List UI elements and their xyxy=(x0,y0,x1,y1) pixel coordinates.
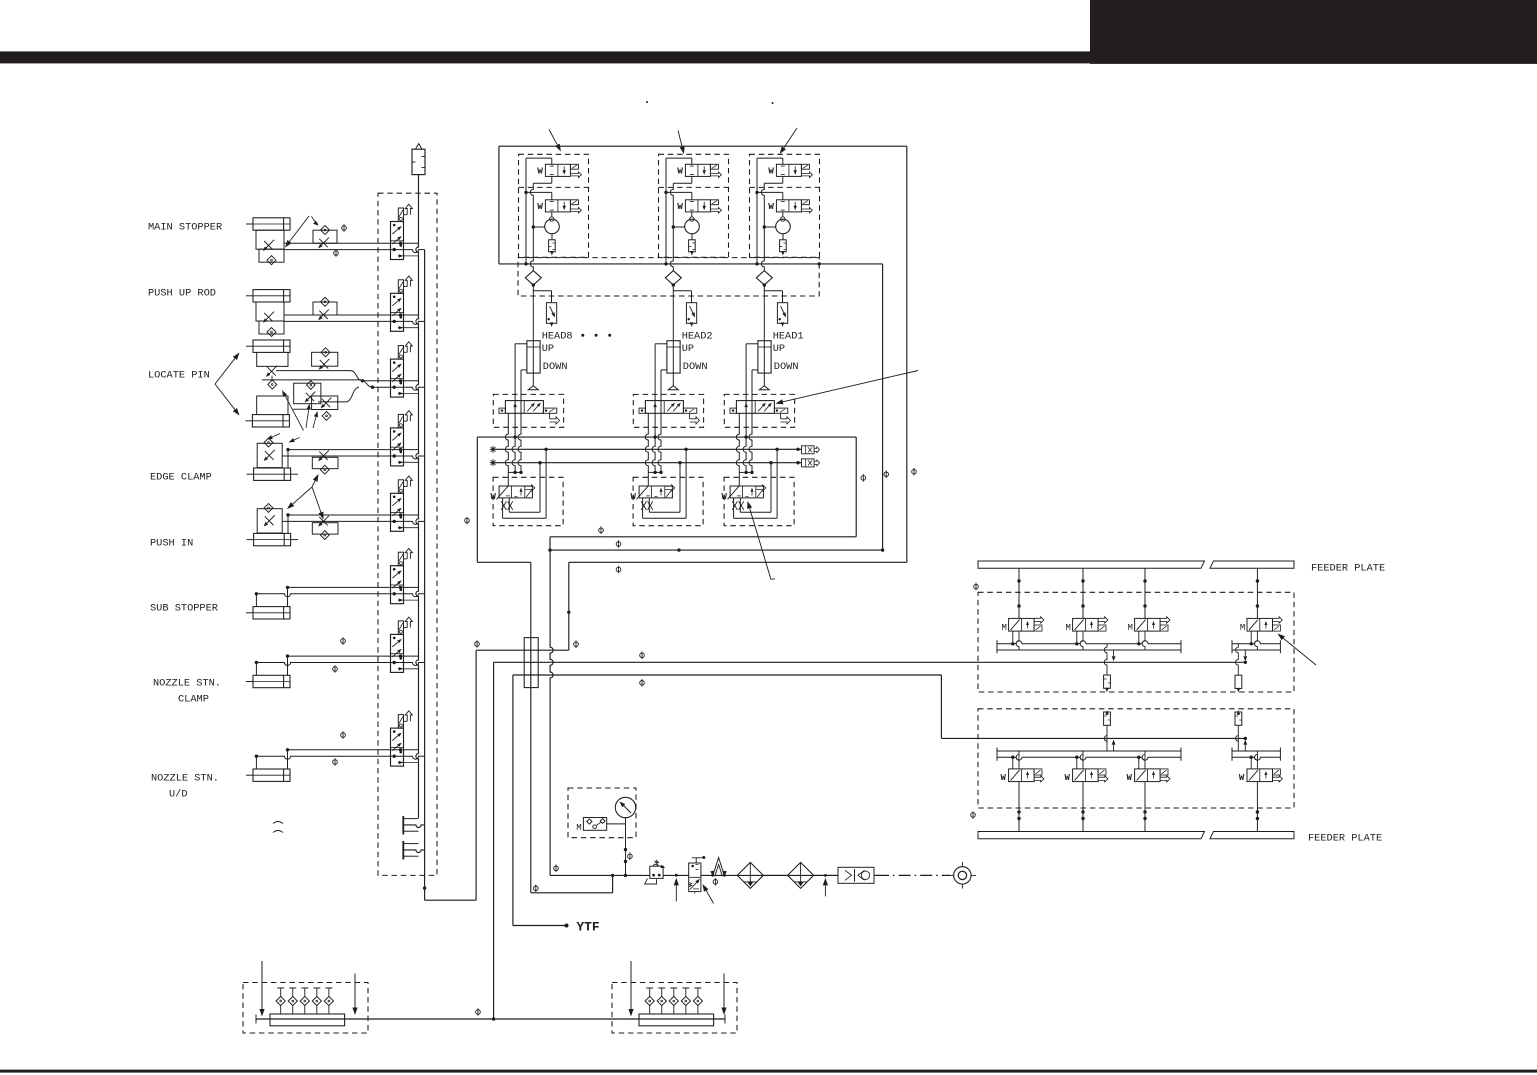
wire lower box bottom xyxy=(550,536,856,538)
wire lower box left xyxy=(476,437,478,562)
manifold valve MV3 xyxy=(391,359,404,397)
dashed box HEAD1 valves xyxy=(750,154,820,257)
wire gauge drop xyxy=(625,818,627,876)
wire YTF xyxy=(513,925,567,927)
check valve valve manifold L 2 xyxy=(289,987,296,989)
wire feeder upper manifold line1 xyxy=(997,641,1181,644)
dashed box HEAD1 cylinder valve xyxy=(724,394,794,427)
manifold valve MV5 xyxy=(391,493,404,531)
ellipsis dots xyxy=(581,334,584,337)
speed controller PUSH IN a xyxy=(257,509,282,533)
phi mark xyxy=(640,652,645,660)
feeder bar lower b xyxy=(1210,832,1294,839)
phi mark xyxy=(341,731,346,739)
wire EDGE CLAMP junction xyxy=(287,450,289,468)
wire feeder valve U2 outputs xyxy=(1076,631,1078,644)
speed controller PUSH UP ROD a xyxy=(256,302,284,321)
phi mark xyxy=(616,566,621,574)
svg-text:W: W xyxy=(1239,773,1245,783)
speed controller LOCATE PIN b xyxy=(312,352,338,366)
wire HEAD2 valveB out xyxy=(691,212,693,217)
wire HEAD2 main drop xyxy=(672,285,674,386)
manifold valve MV6 xyxy=(391,566,404,604)
wire feed right branch xyxy=(882,264,884,550)
start valve exhaust T xyxy=(695,858,697,863)
wire LOCATE PIN valve lines xyxy=(363,380,419,382)
break marks xyxy=(273,822,283,824)
check valve valve manifold L 3 xyxy=(301,987,308,989)
wire PUSH UP ROD lower xyxy=(284,321,425,324)
wire HEAD1 valveB supply xyxy=(757,191,783,193)
svg-text:W: W xyxy=(677,166,683,177)
wire HEAD2 junction bar xyxy=(648,471,661,473)
manifold exhaust port block 1 xyxy=(402,816,404,835)
svg-text:W: W xyxy=(1065,773,1071,783)
housing LOCATE PIN lower xyxy=(257,396,288,415)
svg-text:UP: UP xyxy=(542,343,554,355)
annotation arrow edge clamp b xyxy=(272,434,280,438)
wire PUSH IN junction xyxy=(287,515,289,533)
wire feeder valve L4 inputs xyxy=(1250,757,1252,769)
wire HEAD8 venturi branch xyxy=(533,226,544,228)
wire HEAD8 wrapB xyxy=(539,463,541,513)
svg-text:SUB STOPPER: SUB STOPPER xyxy=(150,603,218,615)
exhaust HEAD1 cylinder valve xyxy=(780,413,782,419)
speed controller PUSH IN b xyxy=(312,523,338,534)
exhaust HEAD8 cylinder valve xyxy=(549,413,551,419)
valve feeder valve U4 xyxy=(1247,618,1273,631)
svg-text:M: M xyxy=(1240,623,1245,633)
dashed box feeder upper xyxy=(978,592,1294,692)
wire feeder U4 manifold xyxy=(1232,641,1280,644)
phi mark xyxy=(476,1008,481,1016)
wire HEAD8 DOWN line xyxy=(521,369,527,371)
svg-text:W: W xyxy=(537,201,543,212)
wire line A550 xyxy=(550,549,883,551)
wire feeder valve U4 outputs xyxy=(1250,631,1252,644)
dashed box HEAD2 hand valve xyxy=(633,477,703,525)
wire feeder L4 manifold xyxy=(1232,750,1280,752)
exhaust port MV4 xyxy=(404,420,408,422)
svg-text:HEAD2: HEAD2 xyxy=(682,330,713,342)
manifold exhaust port block 2 xyxy=(402,841,404,860)
svg-text:W: W xyxy=(768,201,774,212)
filter feeder U main xyxy=(1104,644,1107,675)
silencer F1 on manifold supply xyxy=(412,149,425,174)
wire PUSH UP ROD upper xyxy=(284,314,419,316)
exhaust port MV5 xyxy=(404,486,408,488)
cylinder LOCATE PIN upper xyxy=(253,340,290,352)
arrow valve manifold R out xyxy=(723,974,725,1008)
dashed box HEAD2 valves xyxy=(659,154,729,257)
wire HEAD1 wrapA xyxy=(776,449,778,518)
plug bus A xyxy=(802,446,815,454)
check valve valve manifold R 1 xyxy=(646,987,653,989)
wire stem feeder valve L3 xyxy=(1144,782,1146,832)
svg-text:DOWN: DOWN xyxy=(543,361,568,373)
wire HEAD2 venturi branch xyxy=(673,226,684,228)
wire HEAD1 junction bar xyxy=(739,471,752,473)
wire NOZZLE STN. U/D lower xyxy=(256,756,424,759)
supply arrow L4 xyxy=(1244,744,1246,751)
svg-text:LOCATE PIN: LOCATE PIN xyxy=(148,370,210,382)
check valve valve manifold R 3 xyxy=(670,987,677,989)
wire run 900 xyxy=(425,899,477,901)
supply arrow L main xyxy=(1113,744,1115,751)
exhaust cone xyxy=(713,858,725,877)
manifold bar valve manifold L xyxy=(270,1014,345,1026)
wire lower box right xyxy=(855,437,857,537)
shuttle valve HEAD2 xyxy=(665,271,681,285)
wire HEAD8 valveB out xyxy=(551,212,553,217)
filter feeder L4 xyxy=(1236,725,1239,751)
wire NOZZLE STN. U/D stub right xyxy=(287,750,289,769)
arrow valve manifold L out xyxy=(354,974,356,1008)
valve HEAD8 hand valve xyxy=(499,486,532,498)
wire PUSH IN upper xyxy=(288,514,419,516)
housing LOCATE PIN upper xyxy=(257,352,288,366)
dashed box HEAD2 cylinder valve xyxy=(633,394,703,427)
annotation arrow fan2 xyxy=(312,487,321,512)
annotation arrow feeder xyxy=(1283,638,1316,665)
pressure gauge xyxy=(615,797,635,817)
wire stem feeder valve L1 xyxy=(1018,782,1020,832)
cylinder HEAD1 xyxy=(758,341,771,373)
wire right riser 881 xyxy=(882,549,884,551)
exhaust port MV2 xyxy=(404,286,408,288)
check valve MAIN STOPPER xyxy=(259,249,284,262)
wire drop 550 to airline xyxy=(550,550,553,875)
annotation arrow HEAD1 xyxy=(784,128,797,148)
cylinder HEAD8 xyxy=(527,341,540,373)
valve HEAD1 cylinder valve xyxy=(736,401,774,414)
wire HEAD8 supply vertical xyxy=(525,158,527,264)
cylinder NOZZLE STN. CLAMP xyxy=(253,675,290,687)
svg-text:M: M xyxy=(1128,623,1133,633)
wire HEAD1 branch to shutoff xyxy=(764,290,782,292)
shuttle valve HEAD8 xyxy=(525,271,541,285)
wire drop 530 xyxy=(530,562,532,893)
wire stem feeder valve U2 xyxy=(1082,568,1084,618)
annotation arrow HEAD8 xyxy=(549,130,557,145)
wire HEAD2 wrapB xyxy=(679,463,681,513)
valve feeder valve L4 xyxy=(1247,769,1273,782)
dashed box valve manifold R xyxy=(612,983,737,1034)
wire dash-dot xyxy=(877,874,950,876)
supply arrow U main xyxy=(1113,650,1115,656)
speck xyxy=(646,101,648,103)
valve HEAD1 hand valve xyxy=(730,486,763,498)
dashed box HEAD1 hand valve xyxy=(724,477,794,525)
svg-text:DOWN: DOWN xyxy=(774,361,799,373)
wire MAIN STOPPER upper xyxy=(284,242,419,244)
wire bus A xyxy=(493,448,801,450)
phi mark xyxy=(342,224,347,232)
svg-text:M: M xyxy=(1002,623,1007,633)
header bar xyxy=(0,51,1090,63)
speck xyxy=(772,102,774,104)
svg-text:FEEDER PLATE: FEEDER PLATE xyxy=(1308,833,1382,845)
wire PUSH IN lower xyxy=(282,521,424,524)
speed controller LOCATE PIN c xyxy=(294,383,321,404)
manifold valve MV8 xyxy=(391,728,404,766)
wire HEAD2 supply vertical xyxy=(665,158,667,264)
wire stem feeder valve U4 xyxy=(1256,568,1258,618)
valve HEAD8 pilot B xyxy=(545,200,570,212)
svg-text:EDGE CLAMP: EDGE CLAMP xyxy=(150,472,212,484)
pressure gauge dashed box xyxy=(568,788,636,838)
feeder bar upper a xyxy=(978,561,1205,568)
wire HEAD8 valveB supply xyxy=(526,191,552,193)
annotation arrow main stopper small xyxy=(312,216,318,223)
wire HEAD1 supply vertical xyxy=(756,158,758,264)
phi mark xyxy=(640,679,645,687)
wire LOCATE PIN lineB xyxy=(262,379,361,381)
phi mark xyxy=(884,471,889,479)
wire HEAD8 wrapA xyxy=(545,449,547,518)
exhaust port MV3 xyxy=(404,351,408,353)
wire HEAD8 supply entry xyxy=(526,157,552,159)
nozzle HEAD1 xyxy=(759,386,769,390)
filter feeder U4 xyxy=(1236,644,1239,675)
wire lower box bottom stub xyxy=(549,537,551,550)
wire HEAD1 UP line xyxy=(746,343,758,345)
filter 1 xyxy=(737,862,763,888)
wire lower feeder riser xyxy=(940,675,942,738)
wire HEAD2 UP line xyxy=(655,343,667,345)
wire SUB STOPPER stub left xyxy=(255,594,257,607)
svg-text:PUSH UP ROD: PUSH UP ROD xyxy=(148,288,216,300)
cylinder PUSH UP ROD xyxy=(253,290,290,302)
wire NOZZLE STN. CLAMP lower xyxy=(256,663,424,666)
manifold valve MV7 xyxy=(391,634,404,672)
phi mark xyxy=(465,517,470,525)
dashed box head shuttle band xyxy=(518,258,819,296)
phi mark xyxy=(616,540,621,548)
wire HEAD2 valve port drop xyxy=(645,413,648,472)
svg-text:UP: UP xyxy=(682,343,694,355)
valve feeder valve L1 xyxy=(1009,769,1035,782)
wire bottom bus xyxy=(256,1018,725,1020)
coupling xyxy=(838,867,874,883)
dashed box valve manifold L xyxy=(243,983,368,1034)
phi mark xyxy=(333,758,338,766)
phi mark xyxy=(475,640,480,648)
wire HEAD8 junction bar xyxy=(508,471,521,473)
speed controller PUSH UP ROD b xyxy=(313,302,337,315)
valve HEAD8 cylinder valve xyxy=(505,401,543,414)
exhaust port MV6 xyxy=(404,558,408,560)
wire feeder lower manifold line1 xyxy=(997,750,1181,752)
wire supply loop right xyxy=(906,146,908,562)
annotation arrow regulator xyxy=(675,885,677,901)
check valve valve manifold L 1 xyxy=(277,987,284,989)
phi mark xyxy=(334,249,339,257)
valve feeder valve L3 xyxy=(1135,769,1161,782)
feeder bar lower a xyxy=(978,832,1205,839)
svg-text:W: W xyxy=(491,492,497,502)
regulator drain xyxy=(645,878,657,884)
valve HEAD1 vacuum shutoff xyxy=(777,303,787,324)
valve feeder valve U3 xyxy=(1135,618,1161,631)
cylinder LOCATE PIN lower xyxy=(252,415,289,427)
wire manifold bus P xyxy=(416,207,419,818)
svg-text:W: W xyxy=(677,201,683,212)
wire HEAD2 branch to shutoff xyxy=(673,290,691,292)
annotation arrow head1 hand valve xyxy=(750,508,771,579)
wire feeder valve U3 outputs xyxy=(1138,631,1140,644)
nozzle HEAD8 xyxy=(528,386,538,390)
speed controller EDGE CLAMP b xyxy=(312,457,338,468)
exhaust port MV7 xyxy=(404,627,408,629)
wire supply loop top xyxy=(499,145,907,147)
speed controller LOCATE PIN d xyxy=(312,396,338,410)
svg-text:YTF: YTF xyxy=(577,920,600,935)
wire bus B xyxy=(493,462,801,464)
venturi HEAD2 xyxy=(685,219,700,234)
valve HEAD2 cylinder valve xyxy=(645,401,683,414)
svg-text:MAIN STOPPER: MAIN STOPPER xyxy=(148,222,222,234)
flow control LOCATE PIN a xyxy=(267,367,276,376)
svg-text:DOWN: DOWN xyxy=(683,361,708,373)
cylinder MAIN STOPPER xyxy=(253,218,290,230)
manifold valve MV4 xyxy=(391,428,404,466)
wire EDGE CLAMP upper xyxy=(288,449,419,451)
flow controls HEAD2 hand valve xyxy=(641,501,646,510)
wire feeder valve L2 inputs xyxy=(1076,757,1078,769)
dashed box feeder lower xyxy=(978,709,1294,808)
wire LOCATE PIN lineA xyxy=(276,370,351,372)
venturi HEAD8 xyxy=(545,219,560,234)
wire HEAD2 supply entry xyxy=(666,157,692,159)
wire drop 493 xyxy=(493,662,495,1019)
annotation arrow start valve xyxy=(706,891,713,904)
dashed box HEAD8 valves xyxy=(519,154,589,257)
wire LOCATE PIN lineC xyxy=(318,401,346,403)
annotation arrow locate pin small2 xyxy=(306,409,309,428)
svg-text:W: W xyxy=(1127,773,1133,783)
phi mark xyxy=(861,474,866,482)
svg-text:W: W xyxy=(768,166,774,177)
manifold dashed enclosure xyxy=(378,193,437,875)
wire feeder lower manifold line2 xyxy=(997,757,1181,760)
svg-text:HEAD8: HEAD8 xyxy=(542,330,573,342)
wire HEAD2 valveA out xyxy=(691,176,693,183)
svg-text:NOZZLE STN.: NOZZLE STN. xyxy=(151,773,219,785)
phi mark xyxy=(912,468,917,476)
wire NOZZLE STN. U/D upper xyxy=(288,749,419,751)
shuttle valve HEAD1 xyxy=(756,271,772,285)
annotation arrow locate pin small1 xyxy=(285,396,303,431)
bulkhead connector xyxy=(524,638,538,688)
valve HEAD2 vacuum shutoff xyxy=(686,303,696,324)
annotation arrow locate pin small3 xyxy=(313,417,316,428)
wire HEAD8 valve port drop xyxy=(505,413,508,472)
wire main air line xyxy=(550,874,650,876)
manifold valve MV2 xyxy=(391,293,404,331)
flow controls HEAD1 hand valve xyxy=(732,501,737,510)
wire drop 476 xyxy=(475,650,477,900)
wire HEAD2 wrapA xyxy=(685,449,687,518)
wire feeder valve L1 inputs xyxy=(1012,757,1014,769)
svg-text:HEAD1: HEAD1 xyxy=(773,330,804,342)
check valve valve manifold L 4 xyxy=(313,987,320,989)
annotation arrow head1 valve xyxy=(783,371,918,402)
valve HEAD8 pilot A xyxy=(545,164,570,176)
header block top right xyxy=(1090,0,1537,64)
wire filters xyxy=(763,874,787,876)
wire HEAD8 branch to shutoff xyxy=(533,290,551,292)
check valve valve manifold R 5 xyxy=(694,987,701,989)
wire lower box top xyxy=(477,436,856,438)
speed controller MAIN STOPPER b xyxy=(313,230,337,243)
annotation arrow main stopper xyxy=(290,216,309,242)
wire manifold supply drop xyxy=(418,175,420,207)
wire stem feeder valve U1 xyxy=(1018,568,1020,618)
wire MAIN STOPPER lower xyxy=(284,250,425,253)
exhaust HEAD2 cylinder valve xyxy=(689,413,691,419)
wire HEAD1 venturi branch xyxy=(764,226,775,228)
svg-text:NOZZLE STN.: NOZZLE STN. xyxy=(153,678,221,690)
valve HEAD2 hand valve xyxy=(639,486,672,498)
wire HEAD1 valveA out xyxy=(782,176,784,183)
svg-text:W: W xyxy=(1001,773,1007,783)
wire feeder upper manifold line2 xyxy=(997,649,1181,651)
valve HEAD2 pilot A xyxy=(685,164,710,176)
wire NOZZLE STN. CLAMP stub right xyxy=(287,656,289,675)
annotation arrow fan1 xyxy=(293,487,312,504)
wire HEAD1 main drop xyxy=(763,285,765,386)
annotation arrows locate pin xyxy=(215,358,235,384)
svg-text:M: M xyxy=(576,823,581,833)
wire stem feeder valve L2 xyxy=(1082,782,1084,832)
wire line 675 lower feeder supply xyxy=(513,674,942,676)
phi mark xyxy=(599,526,604,534)
wire NOZZLE STN. U/D stub left xyxy=(255,756,257,769)
filter HEAD1 xyxy=(782,234,784,240)
arrow valve manifold R in xyxy=(630,961,632,1009)
wire HEAD8 UP line xyxy=(515,343,527,345)
wire line 650 xyxy=(476,649,569,651)
feeder bar upper b xyxy=(1210,561,1294,568)
wire SUB STOPPER lower xyxy=(256,594,424,597)
wire HEAD1 supply entry xyxy=(757,157,783,159)
wire stem feeder valve L4 xyxy=(1256,782,1258,832)
annotation arrow edge clamp xyxy=(294,438,300,441)
valve feeder valve U2 xyxy=(1073,618,1099,631)
wire HEAD1 valve port drop xyxy=(736,413,739,472)
wire stem feeder valve U3 xyxy=(1144,568,1146,618)
footer rule xyxy=(0,1070,1537,1073)
dashed box HEAD8 cylinder valve xyxy=(493,394,563,427)
svg-text:M: M xyxy=(1066,623,1071,633)
check valve valve manifold R 4 xyxy=(682,987,689,989)
wire HEAD8 main drop xyxy=(532,285,534,386)
wire feeder valve U1 outputs xyxy=(1012,631,1014,644)
svg-text:UP: UP xyxy=(773,343,785,355)
phi mark xyxy=(574,640,579,648)
phi mark xyxy=(333,665,338,673)
valve HEAD1 pilot A xyxy=(776,164,801,176)
cylinder EDGE CLAMP xyxy=(254,468,291,480)
wire NOZZLE STN. CLAMP stub left xyxy=(255,663,257,676)
svg-text:FEEDER PLATE: FEEDER PLATE xyxy=(1311,563,1385,575)
annotation arrow HEAD2 xyxy=(678,131,682,147)
valve feeder valve U1 xyxy=(1009,618,1035,631)
filter feeder L main xyxy=(1104,725,1107,751)
wire drop 512 YTF xyxy=(512,675,514,926)
cylinder NOZZLE STN. U/D xyxy=(253,769,290,781)
